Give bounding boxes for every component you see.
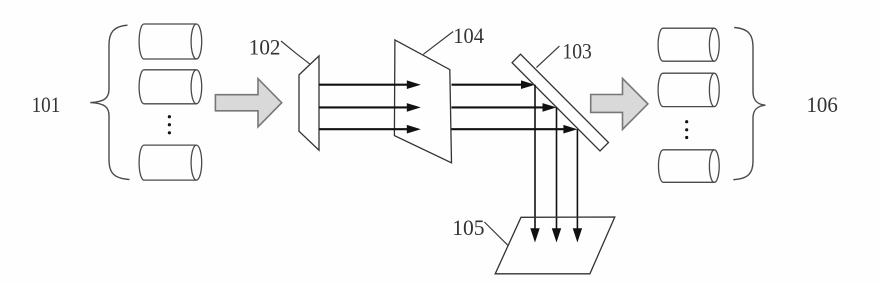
- svg-text:102: 102: [249, 34, 281, 59]
- beam 3 arrowhead at mirror: [563, 125, 577, 134]
- cylinder right 1: [658, 28, 719, 61]
- beam 2 shaft (102 to 104): [319, 106, 408, 108]
- beam 1 shaft (104 to mirror): [452, 84, 523, 86]
- beam 3 arrowhead in 104: [407, 125, 421, 134]
- svg-text:105: 105: [452, 215, 484, 240]
- leader 104: [423, 32, 453, 55]
- multiplexer 102: [299, 56, 319, 150]
- reflected beam 1 arrowhead down: [530, 228, 539, 242]
- beam 1 arrowhead in 104: [407, 80, 421, 89]
- block arrow left: [215, 79, 281, 127]
- cylinder left 2: [139, 70, 202, 104]
- cylinder right 2: [658, 73, 719, 106]
- svg-text:104: 104: [453, 23, 484, 48]
- beam 1 arrowhead at mirror: [521, 80, 535, 89]
- ellipsis dots left: [168, 115, 171, 134]
- leader 103: [536, 46, 559, 68]
- right brace: [733, 28, 765, 180]
- expander 104: [394, 40, 451, 163]
- beam 2 arrowhead in 104: [407, 103, 421, 112]
- svg-text:103: 103: [562, 38, 591, 63]
- reflected beam 3 down: [576, 129, 578, 230]
- reflected beam 1 down: [534, 85, 536, 230]
- reflected beam 3 arrowhead down: [573, 228, 582, 242]
- block arrow right: [591, 78, 648, 129]
- cylinder left 1: [139, 24, 202, 59]
- reflected beam 2 arrowhead down: [552, 228, 561, 242]
- svg-text:106: 106: [807, 92, 838, 117]
- leader 105: [484, 222, 508, 245]
- svg-text:101: 101: [32, 92, 61, 117]
- leader 102: [281, 41, 310, 64]
- ellipsis dots right: [685, 120, 688, 139]
- beam 3 shaft (104 to mirror): [452, 128, 565, 130]
- beam 2 arrowhead at mirror: [543, 103, 557, 112]
- beam 1 shaft (102 to 104): [319, 84, 408, 86]
- cylinder left 3: [139, 145, 202, 180]
- beam 2 shaft (104 to mirror): [452, 106, 544, 108]
- beam 3 shaft (102 to 104): [319, 128, 408, 130]
- mirror 103: [512, 54, 608, 151]
- left brace: [90, 25, 129, 179]
- detector 105: [495, 217, 615, 274]
- reflected beam 2 down: [556, 107, 558, 230]
- cylinder right 3: [658, 150, 719, 183]
